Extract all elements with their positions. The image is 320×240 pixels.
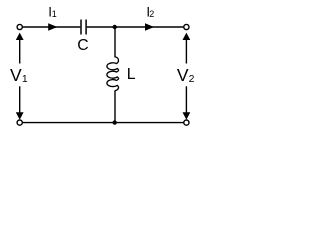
- wire: bottom rail: [22, 122, 184, 124]
- terminal: port 1 bottom: [17, 120, 22, 125]
- capacitor C: [81, 20, 86, 35]
- terminal: port 1 top: [17, 24, 22, 29]
- voltage arrow V1 upper (points up at terminal): [16, 33, 24, 64]
- svg-text:V: V: [177, 65, 189, 85]
- label V1: [10, 65, 28, 85]
- svg-text:2: 2: [149, 9, 154, 19]
- node: top junction: [113, 25, 117, 29]
- label L: [127, 66, 136, 83]
- label C: [77, 37, 88, 54]
- label I2: [146, 5, 154, 20]
- svg-text:1: 1: [22, 73, 28, 85]
- voltage arrow V1 lower (points down at terminal): [16, 86, 24, 119]
- wire: top rail left (terminal 1 to capacitor): [22, 26, 80, 28]
- voltage arrow V2 lower (points down at terminal): [183, 86, 191, 119]
- svg-text:1: 1: [52, 9, 57, 19]
- svg-text:V: V: [10, 65, 22, 85]
- inductor L: [107, 57, 119, 91]
- svg-text:2: 2: [189, 73, 195, 85]
- wire: top rail right (capacitor to terminal 2): [87, 26, 184, 28]
- label V2: [177, 65, 195, 85]
- terminal: port 2 bottom: [184, 120, 189, 125]
- current arrow I2: [145, 23, 154, 30]
- current arrow I1: [48, 23, 57, 30]
- label I1: [48, 5, 57, 20]
- voltage arrow V2 upper (points up at terminal): [183, 33, 191, 64]
- svg-text:L: L: [127, 66, 136, 83]
- wire: inductor bottom lead: [114, 90, 116, 122]
- terminal: port 2 top: [184, 24, 189, 29]
- wire: inductor top lead: [114, 27, 116, 57]
- svg-text:C: C: [77, 37, 88, 54]
- node: bottom junction: [113, 120, 117, 124]
